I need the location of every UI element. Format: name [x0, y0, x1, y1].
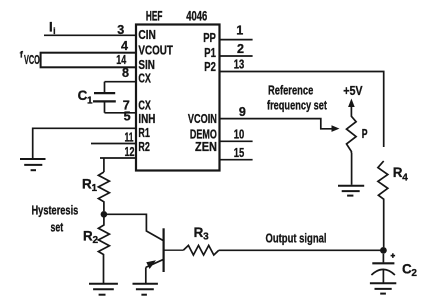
svg-text:R1: R1: [138, 126, 150, 140]
wire pin15 ZEN: [220, 159, 253, 161]
svg-text:set: set: [51, 221, 64, 235]
svg-text:VCOUT: VCOUT: [138, 44, 173, 58]
label C1: [78, 88, 93, 106]
resistor R3: [183, 245, 219, 255]
svg-text:PP: PP: [203, 31, 216, 45]
svg-text:2: 2: [237, 42, 244, 56]
ground (R2): [89, 284, 118, 295]
wire pin11 R1: [91, 143, 136, 145]
wire pin10 DEMO: [220, 140, 253, 142]
resistor R1: [98, 172, 109, 211]
wiper arrowhead: [332, 125, 340, 132]
svg-text:HEF: HEF: [146, 8, 163, 23]
svg-text:3: 3: [203, 232, 209, 243]
capacitor C2 (polarized): [371, 254, 395, 283]
wire pin12 R2: [100, 157, 136, 159]
svg-text:4: 4: [121, 39, 128, 53]
svg-text:11: 11: [125, 130, 134, 144]
svg-text:frequency set: frequency set: [267, 98, 328, 112]
node fVCO label: [20, 50, 40, 68]
svg-text:14: 14: [116, 53, 126, 67]
transistor Q1 emitter: [146, 259, 164, 267]
svg-text:+5V: +5V: [343, 84, 363, 98]
wire pin9 VCOIN to potentiometer wiper: [220, 119, 334, 129]
svg-text:R: R: [393, 165, 403, 180]
svg-text:4: 4: [402, 173, 408, 184]
wire pin12 down to R1: [103, 158, 105, 172]
wire emitter to ground: [145, 267, 147, 283]
label R4: [393, 165, 409, 184]
svg-text:ZEN: ZEN: [195, 140, 217, 154]
wire fVCO loop (pin4 VCOUT to pin14 SIN): [41, 53, 136, 68]
wire pin7 CX: [105, 112, 137, 114]
svg-text:SIN: SIN: [138, 58, 155, 72]
ground (transistor emitter): [133, 284, 158, 295]
ground (C2): [370, 283, 396, 293]
wire pot to ground: [351, 153, 353, 185]
svg-text:Output signal: Output signal: [266, 231, 327, 245]
wire transistor base to R3: [164, 249, 184, 251]
svg-text:9: 9: [239, 105, 246, 119]
svg-text:2: 2: [411, 268, 417, 279]
svg-text:10: 10: [234, 128, 245, 142]
svg-text:CIN: CIN: [138, 28, 156, 42]
svg-text:INH: INH: [138, 112, 155, 126]
wire junction to transistor collector: [104, 214, 164, 241]
label Hysteresis set: [32, 203, 79, 234]
wire pin5 INH: [33, 128, 136, 158]
wire pin13 P2 to R4: [220, 72, 384, 148]
svg-text:5: 5: [124, 110, 131, 124]
svg-text:P: P: [362, 127, 368, 141]
label R1: [82, 177, 98, 195]
node output junction: [380, 247, 387, 254]
+5V arrow: [348, 99, 355, 108]
wire pin2 P1: [220, 55, 253, 57]
capacitor C1: [93, 82, 116, 113]
svg-text:P2: P2: [204, 60, 216, 74]
svg-text:Reference: Reference: [268, 84, 313, 98]
resistor R4: [378, 161, 388, 247]
wire output signal: [219, 249, 384, 251]
svg-text:R2: R2: [138, 140, 150, 154]
plus polarity mark: [391, 253, 396, 258]
svg-text:2: 2: [93, 235, 99, 246]
svg-text:4046: 4046: [186, 8, 207, 23]
svg-text:1: 1: [87, 95, 93, 106]
resistor R2: [98, 217, 109, 284]
svg-text:15: 15: [234, 146, 245, 160]
svg-text:VCO: VCO: [24, 53, 40, 67]
svg-text:CX: CX: [138, 99, 151, 113]
label R3: [194, 225, 210, 243]
transistor Q1 base bar: [163, 228, 165, 272]
svg-text:R: R: [83, 229, 93, 244]
svg-text:Hysteresis: Hysteresis: [32, 203, 79, 217]
svg-text:VCOIN: VCOIN: [188, 112, 217, 126]
ground (potentiometer): [338, 186, 364, 196]
label Reference frequency set: [267, 84, 328, 113]
svg-text:8: 8: [122, 66, 129, 80]
label C2: [402, 261, 417, 279]
svg-text:CX: CX: [138, 72, 151, 86]
svg-text:1: 1: [236, 23, 243, 37]
ground (INH): [20, 159, 46, 170]
IC U1 HEF4046 body: [136, 25, 220, 171]
svg-text:13: 13: [234, 57, 245, 71]
label R2: [83, 229, 99, 247]
potentiometer P: [347, 107, 357, 153]
node Ii input label: [49, 20, 56, 38]
wire pin3 CIN: [44, 34, 136, 36]
svg-text:3: 3: [117, 23, 124, 37]
svg-text:P1: P1: [204, 46, 216, 60]
svg-text:1: 1: [92, 183, 98, 194]
svg-text:12: 12: [125, 145, 135, 159]
svg-text:R: R: [194, 225, 204, 240]
wire pin8 CX: [105, 81, 137, 83]
wire pin1 PP: [220, 39, 253, 41]
svg-text:R: R: [82, 177, 92, 192]
node hysteresis junction: [101, 211, 108, 218]
